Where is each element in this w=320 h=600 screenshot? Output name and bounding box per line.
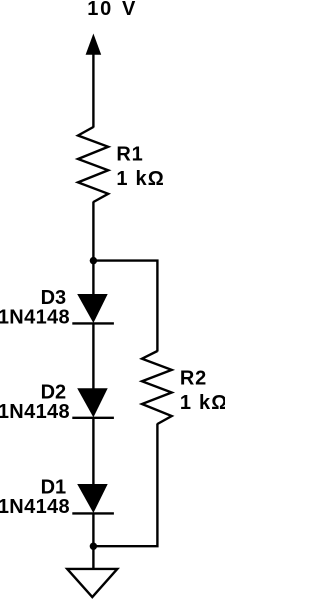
svg-text:1N4148: 1N4148 [0,496,70,518]
power arrow 10V [86,34,102,55]
wire R1 to node A [92,202,94,261]
svg-text:R1: R1 [116,143,143,165]
svg-text:10V: 10V [87,0,136,20]
wire node A to right branch [93,261,157,352]
wire D3 to D2 [92,323,94,388]
wire D1 to node B [92,513,94,546]
svg-text:1N4148: 1N4148 [0,401,70,423]
node A junction dot [90,257,97,264]
wire node B to ground [92,546,94,569]
node B junction dot [90,543,97,550]
svg-text:1 kΩ: 1 kΩ [180,392,225,414]
wire node A to D3 [92,261,94,295]
svg-text:R2: R2 [180,367,207,389]
svg-text:1 kΩ: 1 kΩ [116,168,165,190]
diode D1 [72,484,114,513]
diode D3 [72,294,114,323]
resistor R2 [142,351,172,424]
svg-text:1N4148: 1N4148 [0,306,70,328]
diode D2 [72,388,114,418]
ground [67,569,117,597]
wire R2 to node B [93,424,157,547]
wire arrow to R1 [92,54,94,128]
resistor R1 [78,127,108,202]
wire D2 to D1 [92,418,94,485]
